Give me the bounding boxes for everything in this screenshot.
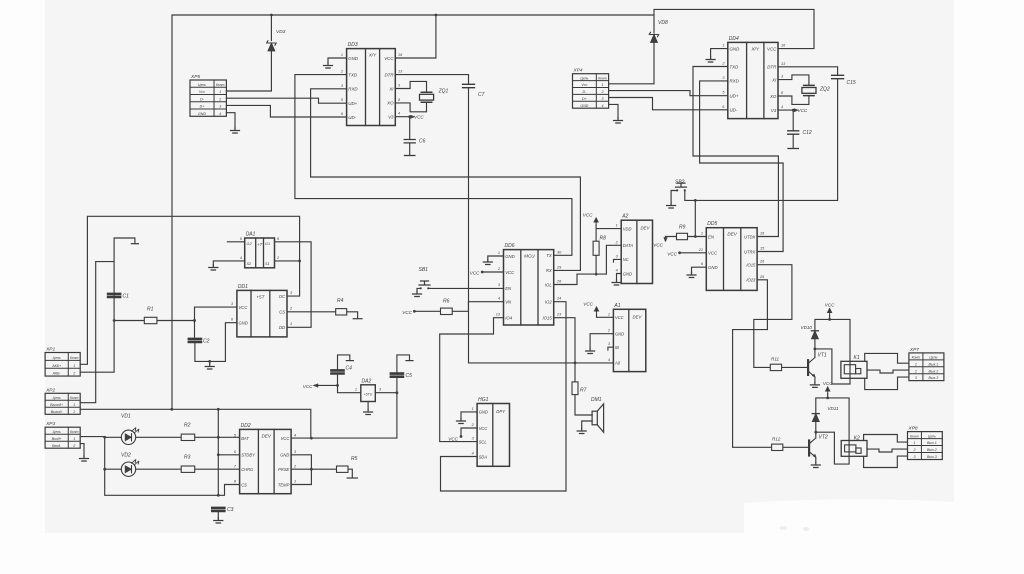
svg-text:VCC: VCC [281, 436, 290, 441]
svg-text:XI: XI [388, 86, 394, 91]
svg-text:UD-: UD- [730, 108, 738, 113]
svg-text:ХР7: ХР7 [909, 347, 919, 353]
svg-text:Вых.2: Вых.2 [928, 369, 938, 373]
svg-text:4: 4 [294, 433, 296, 437]
svg-text:ХР5: ХР5 [190, 74, 200, 80]
svg-text:1: 1 [341, 53, 343, 57]
svg-text:Конт: Конт [912, 356, 921, 360]
svg-text:ХР2: ХР2 [45, 387, 55, 393]
svg-text:C5: C5 [406, 373, 413, 379]
svg-text:IO23: IO23 [746, 278, 756, 283]
svg-text:2: 2 [72, 372, 75, 376]
svg-text:GND: GND [198, 112, 206, 116]
svg-text:GND: GND [708, 265, 718, 270]
svg-text:Конт: Конт [598, 76, 607, 80]
svg-text:MCU: MCU [524, 254, 535, 259]
svg-text:DA1: DA1 [246, 232, 256, 238]
svg-text:1: 1 [601, 83, 603, 87]
svg-text:X/Y: X/Y [751, 46, 760, 51]
svg-text:4: 4 [240, 256, 242, 260]
svg-text:ХР3: ХР3 [45, 421, 55, 427]
svg-text:2: 2 [914, 369, 917, 373]
svg-text:G1: G1 [265, 242, 270, 246]
svg-text:XI: XI [771, 77, 777, 82]
svg-text:VCC: VCC [825, 303, 835, 308]
svg-text:DATA: DATA [623, 243, 634, 248]
svg-text:VCC: VCC [239, 305, 249, 310]
svg-text:C3: C3 [227, 507, 234, 513]
svg-text:4: 4 [398, 112, 400, 116]
svg-text:IOL: IOL [545, 282, 553, 287]
svg-text:SB2: SB2 [675, 180, 685, 186]
svg-text:UD+: UD+ [348, 101, 357, 106]
svg-text:1: 1 [73, 364, 75, 368]
svg-text:DD4: DD4 [729, 36, 739, 42]
svg-text:DEV: DEV [727, 232, 737, 237]
svg-text:VD3: VD3 [276, 29, 286, 35]
svg-text:C12: C12 [803, 130, 812, 136]
svg-text:1: 1 [608, 312, 610, 316]
svg-text:UD-: UD- [348, 115, 356, 120]
svg-text:23: 23 [556, 313, 562, 317]
svg-text:Вых.1: Вых.1 [927, 441, 937, 445]
svg-text:VCC: VCC [615, 315, 624, 320]
svg-text:GND: GND [239, 321, 248, 326]
svg-text:Цепь: Цепь [53, 396, 61, 400]
svg-text:GND: GND [615, 332, 624, 337]
svg-text:VCC: VCC [583, 213, 593, 218]
svg-text:R7: R7 [580, 388, 587, 394]
svg-text:1: 1 [472, 407, 474, 411]
svg-text:DTR: DTR [767, 65, 777, 70]
svg-text:C7: C7 [478, 92, 485, 98]
svg-text:C1: C1 [123, 293, 130, 299]
svg-text:HG1: HG1 [478, 397, 489, 403]
svg-text:1: 1 [498, 251, 500, 255]
svg-text:29: 29 [556, 265, 562, 269]
svg-text:+5T: +5T [256, 294, 265, 299]
svg-text:K2: K2 [854, 435, 860, 441]
svg-text:GND: GND [280, 453, 289, 458]
svg-text:R6: R6 [443, 298, 450, 304]
svg-text:Выход+: Выход+ [50, 403, 63, 407]
svg-text:UTDX: UTDX [744, 234, 755, 239]
svg-text:R1: R1 [147, 307, 154, 313]
svg-text:2: 2 [912, 448, 915, 452]
svg-text:4: 4 [219, 112, 221, 116]
svg-text:Вход+: Вход+ [52, 437, 62, 441]
svg-text:IO15: IO15 [746, 263, 756, 268]
svg-text:C15: C15 [847, 80, 856, 86]
svg-text:TXD: TXD [730, 64, 740, 69]
svg-text:Конт: Конт [70, 396, 79, 400]
svg-text:21: 21 [698, 248, 703, 252]
svg-text:VCC: VCC [384, 56, 394, 61]
svg-text:1: 1 [73, 403, 75, 407]
svg-text:1: 1 [294, 480, 296, 484]
svg-text:Цепь: Цепь [198, 83, 206, 87]
svg-text:C2: C2 [203, 339, 210, 345]
svg-text:2: 2 [600, 90, 603, 94]
svg-text:TXD: TXD [348, 72, 358, 77]
svg-text:R11: R11 [771, 356, 780, 361]
svg-text:C4: C4 [346, 366, 353, 372]
svg-text:K1: K1 [854, 355, 860, 361]
svg-text:VCC: VCC [767, 46, 777, 51]
svg-text:Конт: Конт [216, 83, 225, 87]
svg-text:Конт: Конт [70, 430, 79, 434]
svg-text:+7: +7 [257, 242, 263, 247]
svg-text:CS: CS [241, 482, 247, 487]
svg-text:RXD: RXD [730, 79, 740, 84]
svg-text:V3: V3 [388, 115, 394, 120]
svg-text:АКБ+: АКБ+ [51, 364, 61, 368]
svg-text:1: 1 [913, 441, 915, 445]
svg-text:VD2: VD2 [121, 453, 131, 459]
svg-text:2: 2 [72, 444, 75, 448]
svg-text:R12: R12 [772, 436, 781, 441]
svg-text:VCC: VCC [583, 302, 593, 307]
svg-text:R8: R8 [600, 236, 607, 242]
svg-text:VCC: VCC [479, 426, 488, 431]
svg-text:IB: IB [615, 345, 619, 350]
svg-text:Конт: Конт [70, 356, 79, 360]
svg-text:ХР1: ХР1 [45, 347, 55, 353]
svg-text:VD8: VD8 [658, 20, 668, 26]
svg-text:24: 24 [556, 297, 561, 301]
svg-text:Vcc: Vcc [199, 90, 205, 94]
svg-text:OC: OC [279, 294, 286, 299]
svg-text:Вых.3: Вых.3 [927, 455, 937, 459]
svg-text:VCC: VCC [505, 270, 515, 275]
svg-text:SCL: SCL [479, 439, 487, 444]
svg-text:Вход-: Вход- [52, 444, 62, 448]
svg-text:S1: S1 [265, 262, 270, 266]
svg-text:R9: R9 [679, 225, 686, 231]
svg-text:Цепь: Цепь [928, 434, 936, 438]
svg-text:+5TU: +5TU [364, 392, 373, 396]
svg-text:CHRG: CHRG [241, 467, 254, 472]
svg-text:XO: XO [769, 94, 777, 99]
svg-text:A0: A0 [614, 361, 621, 366]
svg-text:1: 1 [355, 388, 357, 392]
svg-text:A2: A2 [621, 214, 628, 220]
svg-text:RXD: RXD [348, 87, 358, 92]
svg-text:VD1: VD1 [121, 414, 131, 420]
svg-text:Вых.1: Вых.1 [928, 362, 938, 366]
svg-text:SDA: SDA [479, 454, 488, 459]
svg-text:Vcc: Vcc [581, 83, 587, 87]
svg-text:VCC: VCC [448, 437, 458, 442]
svg-text:DEV: DEV [641, 226, 651, 231]
svg-text:X/Y: X/Y [368, 53, 377, 58]
svg-text:VCC: VCC [667, 251, 677, 256]
svg-text:TX: TX [546, 253, 552, 258]
svg-text:CS: CS [279, 310, 285, 315]
svg-text:VT1: VT1 [818, 353, 827, 359]
svg-text:GND: GND [505, 254, 515, 259]
svg-text:ХР8: ХР8 [908, 426, 918, 432]
svg-text:VN: VN [505, 300, 512, 305]
svg-text:DPY: DPY [496, 409, 506, 414]
svg-text:GND: GND [730, 46, 741, 51]
svg-text:DEV: DEV [262, 433, 272, 438]
svg-text:VDD: VDD [623, 226, 632, 231]
svg-text:4: 4 [601, 104, 603, 108]
svg-text:UTRX: UTRX [744, 249, 755, 254]
svg-text:BAT: BAT [241, 436, 249, 441]
svg-text:TEMP: TEMP [278, 482, 290, 487]
svg-text:GND: GND [348, 56, 359, 61]
svg-text:G2: G2 [247, 242, 253, 246]
svg-text:2: 2 [72, 410, 75, 414]
svg-text:D+: D+ [582, 97, 587, 101]
svg-text:GND: GND [623, 271, 632, 276]
svg-text:Цепь: Цепь [53, 430, 61, 434]
svg-text:Вых.2: Вых.2 [927, 448, 937, 452]
svg-text:VCC: VCC [653, 243, 663, 248]
svg-text:GND: GND [580, 104, 588, 108]
svg-text:IO2: IO2 [545, 300, 553, 305]
svg-text:DD2: DD2 [241, 423, 251, 429]
svg-text:Вых.3: Вых.3 [928, 376, 938, 380]
svg-text:V3: V3 [771, 108, 777, 113]
svg-text:1: 1 [219, 90, 221, 94]
svg-text:1: 1 [616, 224, 618, 228]
svg-text:26: 26 [759, 260, 765, 264]
svg-text:NC: NC [623, 257, 629, 262]
svg-text:26: 26 [556, 280, 562, 284]
svg-text:VCC: VCC [470, 270, 480, 275]
svg-text:IO15: IO15 [542, 316, 552, 321]
svg-text:VCC: VCC [798, 108, 808, 113]
svg-text:DEV: DEV [633, 315, 643, 320]
svg-text:4: 4 [616, 269, 618, 273]
svg-text:DD6: DD6 [505, 243, 515, 249]
svg-text:R3: R3 [184, 455, 191, 461]
svg-text:VCC: VCC [402, 310, 412, 315]
svg-text:VCC: VCC [303, 384, 313, 389]
svg-text:Конт: Конт [910, 434, 919, 438]
svg-text:1: 1 [73, 437, 75, 441]
svg-text:3: 3 [601, 97, 603, 101]
svg-text:DTR: DTR [384, 72, 394, 77]
svg-text:EN: EN [708, 234, 715, 239]
svg-text:IO4: IO4 [505, 316, 513, 321]
svg-text:3: 3 [219, 105, 221, 109]
svg-text:4: 4 [781, 105, 783, 109]
svg-text:DD5: DD5 [707, 221, 717, 227]
svg-text:Цепь: Цепь [929, 356, 937, 360]
svg-text:SB1: SB1 [419, 267, 429, 273]
svg-text:Цепь: Цепь [580, 76, 588, 80]
svg-text:DA2: DA2 [362, 378, 372, 384]
svg-text:XO: XO [386, 101, 394, 106]
svg-text:1: 1 [722, 44, 724, 48]
svg-text:EN: EN [505, 286, 512, 291]
svg-text:АКБ-: АКБ- [52, 372, 62, 376]
svg-text:1: 1 [290, 322, 292, 326]
svg-text:2: 2 [218, 97, 221, 101]
svg-text:DD1: DD1 [238, 284, 248, 290]
svg-text:GND: GND [479, 410, 488, 415]
svg-text:25: 25 [759, 275, 765, 279]
svg-text:1: 1 [701, 232, 703, 236]
svg-text:VD10: VD10 [801, 325, 813, 330]
svg-text:3: 3 [913, 455, 915, 459]
svg-text:4: 4 [472, 452, 474, 456]
svg-text:DM1: DM1 [591, 397, 602, 403]
svg-text:A1: A1 [613, 303, 620, 309]
svg-text:VCC: VCC [823, 381, 833, 386]
svg-text:ZQ2: ZQ2 [819, 86, 830, 92]
svg-text:STDBY: STDBY [241, 453, 255, 458]
svg-text:3: 3 [915, 376, 917, 380]
svg-text:ХР4: ХР4 [573, 68, 583, 74]
svg-text:PRSE: PRSE [278, 467, 289, 472]
svg-text:VCC: VCC [414, 115, 424, 120]
svg-text:UD+: UD+ [730, 94, 739, 99]
svg-text:C6: C6 [419, 139, 426, 145]
svg-text:4: 4 [498, 297, 500, 301]
svg-text:ZQ1: ZQ1 [438, 88, 449, 94]
svg-text:Цепь: Цепь [53, 356, 61, 360]
svg-text:VCC: VCC [708, 251, 718, 256]
svg-text:VD11: VD11 [827, 406, 839, 411]
svg-text:D+: D+ [200, 105, 205, 109]
svg-text:R2: R2 [184, 423, 191, 429]
svg-text:DD: DD [279, 325, 285, 330]
svg-text:VT2: VT2 [819, 435, 828, 441]
svg-text:DD3: DD3 [348, 42, 358, 48]
svg-text:R4: R4 [337, 298, 344, 304]
svg-text:4: 4 [608, 358, 610, 362]
svg-text:RX: RX [546, 268, 552, 273]
svg-text:Выход-: Выход- [51, 410, 64, 414]
svg-text:1: 1 [915, 362, 917, 366]
svg-text:R5: R5 [351, 456, 358, 462]
